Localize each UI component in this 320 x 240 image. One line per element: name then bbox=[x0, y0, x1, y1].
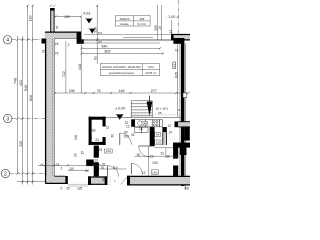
svg-text:110: 110 bbox=[113, 166, 118, 170]
wall: top band (north wall of salon) bbox=[45, 32, 82, 39]
wall: black corner top-right bbox=[173, 38, 184, 44]
svg-text:76: 76 bbox=[175, 49, 179, 53]
svg-text:230: 230 bbox=[152, 161, 158, 165]
svg-text:50: 50 bbox=[98, 40, 102, 44]
svg-text:24: 24 bbox=[139, 127, 143, 131]
svg-text:10: 10 bbox=[158, 26, 162, 30]
svg-text:- 0,03: - 0,03 bbox=[81, 12, 90, 16]
svg-text:92: 92 bbox=[131, 133, 135, 137]
table: TARAS 105 bbox=[115, 16, 150, 26]
wall: hall corner piece bbox=[86, 160, 94, 167]
svg-text:722: 722 bbox=[62, 71, 66, 77]
svg-text:418: 418 bbox=[78, 64, 82, 70]
wall: top-right band bbox=[171, 34, 190, 41]
wall: left exterior bbox=[45, 32, 54, 185]
svg-text:12: 12 bbox=[126, 125, 130, 129]
door arc wc room bbox=[131, 163, 142, 174]
svg-text:posadzka betonowa: posadzka betonowa bbox=[109, 71, 134, 75]
stairs direction arrow bbox=[147, 102, 153, 117]
svg-text:140: 140 bbox=[74, 134, 78, 140]
svg-text:TARAS: TARAS bbox=[119, 17, 129, 21]
svg-text:25: 25 bbox=[99, 148, 103, 152]
svg-text:277: 277 bbox=[151, 89, 157, 93]
wall: black pier right edge bath bbox=[184, 127, 190, 141]
room tag 1/03 bbox=[155, 140, 163, 144]
svg-text:1/02: 1/02 bbox=[152, 170, 158, 174]
svg-text:SALON, KUCHNIA, JADALNIA: SALON, KUCHNIA, JADALNIA bbox=[102, 65, 141, 69]
svg-text:52: 52 bbox=[85, 169, 89, 173]
level mark second triangle bbox=[89, 29, 95, 34]
wall: bottom piece 2 bbox=[88, 176, 107, 185]
svg-text:810: 810 bbox=[29, 95, 33, 101]
axis bubble 2 bbox=[1, 169, 9, 177]
svg-text:802: 802 bbox=[105, 50, 111, 54]
svg-text:90: 90 bbox=[94, 56, 98, 60]
svg-text:148: 148 bbox=[119, 89, 125, 93]
svg-text:3: 3 bbox=[6, 116, 9, 122]
wall: kitchen pier black cap bbox=[131, 119, 135, 127]
svg-text:44: 44 bbox=[169, 30, 173, 34]
wall: black cap and hatched band top-right of kitchen bbox=[175, 121, 179, 127]
svg-text:2: 2 bbox=[4, 171, 7, 177]
svg-text:≥25: ≥25 bbox=[77, 186, 83, 190]
door pocket symbol on right wall bbox=[173, 62, 176, 69]
svg-text:1/01: 1/01 bbox=[106, 149, 112, 153]
svg-text:38: 38 bbox=[102, 178, 106, 182]
right inner face line + 625 dim bbox=[177, 44, 179, 118]
thin interior lines bottom right bbox=[135, 155, 178, 157]
svg-text:12: 12 bbox=[142, 171, 146, 175]
stairs treads bbox=[131, 101, 152, 118]
svg-text:76: 76 bbox=[101, 166, 105, 170]
svg-text:20: 20 bbox=[42, 50, 46, 54]
door arc entrance bbox=[108, 166, 119, 177]
right top extension lines bbox=[157, 5, 159, 40]
svg-text:2: 2 bbox=[68, 43, 70, 47]
axis bubble 4 bbox=[3, 36, 11, 44]
threshold lines in gap bbox=[68, 183, 88, 185]
wall: right exterior (party wall) bbox=[181, 44, 184, 187]
svg-text:2: 2 bbox=[61, 167, 63, 171]
svg-text:64: 64 bbox=[156, 133, 160, 137]
svg-text:83: 83 bbox=[92, 129, 96, 133]
dim row near bottom edge left bbox=[17, 181, 45, 183]
svg-text:0: 0 bbox=[61, 186, 63, 190]
svg-text:deska: deska bbox=[120, 22, 129, 26]
svg-text:540: 540 bbox=[24, 85, 28, 91]
wall: hall left wall vertical bbox=[94, 146, 99, 158]
svg-text:15: 15 bbox=[81, 151, 85, 155]
room tag 1/02 bbox=[152, 170, 159, 175]
svg-text:33,55 m²: 33,55 m² bbox=[145, 71, 156, 75]
wall: black corner at window start bbox=[77, 32, 82, 44]
svg-text:110: 110 bbox=[69, 167, 74, 171]
svg-text:1/04: 1/04 bbox=[148, 65, 154, 69]
door 110 (left gap) bbox=[68, 170, 88, 172]
kitchen cabinets bbox=[135, 120, 163, 133]
svg-text:100: 100 bbox=[64, 15, 70, 19]
svg-text:130: 130 bbox=[29, 16, 33, 22]
wall: vertical between kitchen and bath bbox=[150, 127, 155, 146]
svg-text:9,4 m²: 9,4 m² bbox=[137, 22, 146, 26]
svg-text:748: 748 bbox=[14, 78, 18, 84]
svg-text:93: 93 bbox=[74, 153, 78, 157]
door 110 entrance dim bbox=[99, 168, 127, 170]
svg-text:76: 76 bbox=[97, 89, 101, 93]
svg-text:± 0,00: ± 0,00 bbox=[115, 107, 125, 111]
wire: left extension line 748 bbox=[18, 5, 33, 174]
svg-text:25: 25 bbox=[66, 186, 70, 190]
wall: bottom piece 3 (bath area) bbox=[127, 176, 190, 186]
svg-text:320: 320 bbox=[93, 27, 97, 33]
svg-text:540: 540 bbox=[102, 45, 108, 49]
grid axis line 4 bbox=[12, 39, 45, 41]
grid dashed line at right bbox=[178, 0, 180, 43]
wall: horizontal bath wall bbox=[173, 143, 190, 148]
svg-text:8,3: 8,3 bbox=[98, 31, 103, 35]
grid axis line 2 bbox=[10, 173, 46, 175]
svg-text:12: 12 bbox=[94, 158, 98, 162]
svg-text:30: 30 bbox=[111, 134, 115, 138]
door arc bath bbox=[139, 146, 150, 157]
svg-text:148: 148 bbox=[142, 121, 147, 125]
wall: left pilaster bbox=[42, 39, 46, 44]
wall: bottom-left corner bbox=[46, 176, 68, 184]
axis bubble 3 bbox=[4, 114, 12, 122]
svg-text:625: 625 bbox=[174, 72, 178, 78]
wall: vertical wall right of 1/03 room bbox=[162, 127, 166, 132]
svg-text:8: 8 bbox=[56, 26, 58, 30]
window glazing double line bbox=[84, 38, 171, 40]
room tag 1/01 bbox=[104, 149, 112, 153]
svg-text:12: 12 bbox=[168, 124, 172, 128]
door arc hall bbox=[120, 133, 132, 145]
svg-text:12: 12 bbox=[106, 125, 110, 129]
dim ticks on axis 4 bbox=[16, 5, 34, 175]
wall: top-left stub above terrace bbox=[50, 8, 54, 32]
wall: closet C-shape bbox=[89, 117, 106, 145]
svg-text:24: 24 bbox=[55, 42, 59, 46]
svg-text:105: 105 bbox=[139, 17, 144, 21]
svg-text:4: 4 bbox=[6, 38, 9, 44]
sliding door leaf line bbox=[123, 37, 153, 39]
svg-text:97: 97 bbox=[169, 130, 173, 134]
table: SALON KUCHNIA JADALNIA bbox=[101, 64, 160, 76]
svg-text:76: 76 bbox=[55, 52, 59, 56]
svg-text:315: 315 bbox=[19, 141, 23, 147]
dim 100 at stub bbox=[55, 16, 81, 18]
svg-text:26: 26 bbox=[158, 111, 162, 115]
grid axis line 3 bbox=[12, 118, 45, 120]
svg-text:PS: PS bbox=[185, 187, 190, 191]
svg-text:208: 208 bbox=[124, 135, 130, 139]
wire: outer face line across opening bbox=[84, 33, 171, 35]
svg-text:198: 198 bbox=[69, 89, 75, 93]
svg-text:24: 24 bbox=[89, 135, 93, 139]
svg-text:61: 61 bbox=[161, 151, 165, 155]
dim line at bottom-left corner bbox=[38, 164, 107, 166]
shaft solid bbox=[180, 148, 187, 155]
svg-text:- 1,00: - 1,00 bbox=[166, 15, 175, 19]
svg-text:431: 431 bbox=[19, 80, 23, 86]
door frame dashed line in entrance gap bbox=[109, 176, 111, 185]
wall: vertical bath wall bbox=[173, 143, 178, 159]
svg-text:24: 24 bbox=[95, 138, 99, 142]
svg-text:1/03: 1/03 bbox=[156, 140, 162, 144]
